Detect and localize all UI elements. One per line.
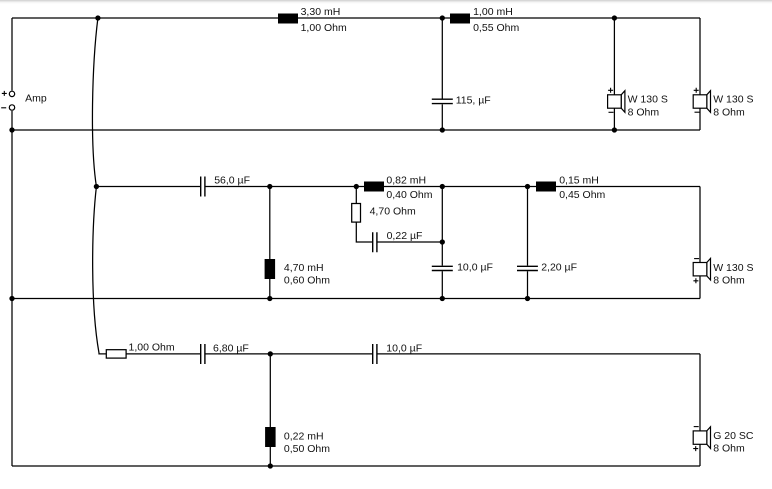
svg-text:8 Ohm: 8 Ohm: [713, 275, 745, 287]
svg-text:1,00 Ohm: 1,00 Ohm: [129, 342, 175, 354]
svg-text:0,55 Ohm: 0,55 Ohm: [473, 22, 519, 34]
svg-text:6,80 µF: 6,80 µF: [213, 342, 249, 354]
svg-text:8 Ohm: 8 Ohm: [628, 106, 660, 118]
svg-text:0,15 mH: 0,15 mH: [559, 175, 599, 187]
svg-text:4,70 Ohm: 4,70 Ohm: [370, 205, 416, 217]
svg-text:4,70 mH: 4,70 mH: [284, 262, 324, 274]
svg-text:0,45 Ohm: 0,45 Ohm: [559, 189, 605, 201]
svg-text:8 Ohm: 8 Ohm: [713, 106, 745, 118]
svg-text:56,0 µF: 56,0 µF: [214, 175, 250, 187]
svg-text:W 130 S: W 130 S: [713, 94, 753, 106]
svg-text:W 130 S: W 130 S: [713, 262, 753, 274]
svg-text:115, µF: 115, µF: [456, 94, 491, 106]
svg-text:Amp: Amp: [25, 93, 47, 105]
svg-text:0,40 Ohm: 0,40 Ohm: [386, 189, 432, 201]
svg-text:8 Ohm: 8 Ohm: [713, 443, 745, 455]
svg-text:W 130 S: W 130 S: [628, 94, 668, 106]
svg-text:0,22 µF: 0,22 µF: [387, 230, 423, 242]
svg-text:10,0 µF: 10,0 µF: [457, 261, 493, 273]
svg-text:0,50 Ohm: 0,50 Ohm: [284, 443, 330, 455]
svg-text:0,82 mH: 0,82 mH: [386, 175, 426, 187]
svg-text:1,00 mH: 1,00 mH: [473, 6, 513, 18]
svg-text:0,60 Ohm: 0,60 Ohm: [284, 275, 330, 287]
svg-text:G 20 SC: G 20 SC: [713, 430, 754, 442]
svg-text:0,22 mH: 0,22 mH: [284, 431, 324, 443]
svg-text:2,20 µF: 2,20 µF: [541, 261, 577, 273]
svg-text:10,0 µF: 10,0 µF: [386, 342, 422, 354]
svg-text:1,00 Ohm: 1,00 Ohm: [301, 22, 347, 34]
svg-text:3,30 mH: 3,30 mH: [301, 6, 341, 18]
